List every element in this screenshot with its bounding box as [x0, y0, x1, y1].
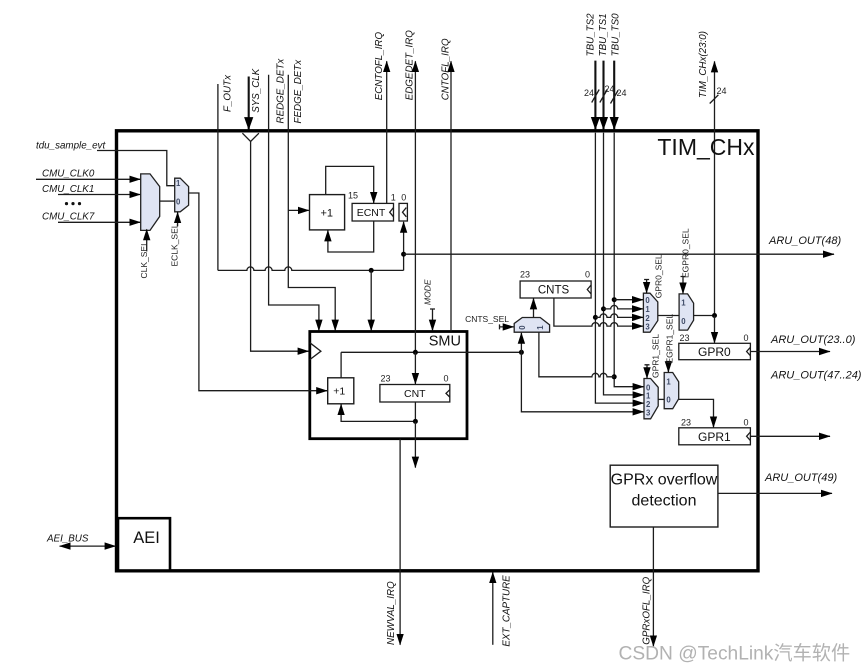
wire AEI_BUS bidirectional — [60, 545, 116, 547]
wire arrow into CNT — [414, 352, 416, 384]
svg-text:REDGE_DETx: REDGE_DETx — [276, 58, 287, 124]
wire tap down to GPR1 mux row3 — [521, 352, 643, 412]
node EDGEDET tap — [413, 350, 418, 355]
svg-text:1: 1 — [666, 377, 671, 386]
wire TBU_TS2 inside box down to GPR1 mux row2 — [595, 133, 643, 403]
selector arrow GPR0_SEL — [644, 280, 649, 293]
svg-text:ARU_OUT(23..0): ARU_OUT(23..0) — [770, 334, 856, 346]
wire GPR0 mux row1 with hop — [604, 305, 644, 308]
svg-text:CMU_CLK7: CMU_CLK7 — [42, 212, 95, 223]
wire SYS_CLK with arrow into box edge — [248, 77, 250, 130]
svg-text:EDGEDET_IRQ: EDGEDET_IRQ — [405, 30, 416, 101]
svg-text:0: 0 — [585, 270, 590, 280]
svg-text:24: 24 — [584, 88, 594, 98]
wire ARU_OUT(49) — [718, 492, 832, 494]
register CNTS — [520, 281, 591, 298]
bus slash TBU_TS1 — [600, 90, 608, 103]
selector arrow GPR1_SEL — [645, 365, 650, 378]
outer module box TIM_CHx — [117, 131, 759, 571]
svg-text:CNTOFL_IRQ: CNTOFL_IRQ — [441, 38, 452, 100]
wire CNTS_SEL mux out to CNTS — [533, 298, 535, 317]
svg-text:NEWVAL_IRQ: NEWVAL_IRQ — [386, 581, 397, 645]
svg-text:1: 1 — [176, 179, 181, 188]
svg-text:0: 0 — [744, 333, 749, 343]
svg-text:0: 0 — [681, 317, 686, 326]
svg-text:TIM_CHx: TIM_CHx — [657, 134, 755, 160]
+1 box inside SMU — [328, 378, 354, 404]
svg-text:FEDGE_DETx: FEDGE_DETx — [293, 59, 304, 124]
wire ECNTOFL_IRQ — [386, 61, 388, 203]
svg-text:TIM_CHx(23:0): TIM_CHx(23:0) — [698, 31, 709, 98]
register ECNT — [352, 203, 393, 221]
svg-text:0: 0 — [518, 325, 527, 330]
svg-text:24: 24 — [605, 84, 615, 94]
svg-text:ECNTOFL_IRQ: ECNTOFL_IRQ — [374, 32, 385, 101]
wire CNTS_SEL mux input1 leg from TBU_TS0 with hops — [539, 332, 614, 377]
wire EGPR1 mux out to GPR1 — [679, 399, 714, 427]
svg-text:CNT: CNT — [404, 388, 426, 400]
svg-text:AEI: AEI — [133, 529, 160, 547]
wire GPR1 output — [750, 435, 830, 437]
wire dangling output below SMU — [414, 421, 416, 467]
selector arrow EGPR1_SEL — [666, 362, 671, 373]
mux GPR0_SEL — [643, 293, 657, 332]
node TBU_TS0 lower tap — [612, 374, 617, 379]
wire SMU internal bus to CNTS_SEL mux — [341, 351, 521, 353]
svg-text:24: 24 — [717, 86, 727, 96]
ellipsis between CMU clocks — [65, 202, 68, 205]
wire TBU_TS1 inside box down to GPR1 mux row1 — [604, 133, 644, 395]
svg-text:23: 23 — [520, 270, 530, 280]
wire ARU_OUT(48) — [404, 253, 834, 255]
svg-text:24: 24 — [617, 88, 627, 98]
svg-text:CNTS_SEL: CNTS_SEL — [465, 314, 509, 324]
svg-text:0: 0 — [666, 396, 671, 405]
SMU input chevron — [310, 343, 321, 360]
mux ECLK_SEL — [175, 178, 189, 212]
svg-text:GPRx overflow: GPRx overflow — [611, 472, 718, 489]
wire GPR0 mux row0 — [614, 299, 643, 301]
node TBU_TS0 tap — [612, 297, 617, 302]
mux EGPR1_SEL — [664, 373, 679, 409]
svg-text:EGPR0_SEL: EGPR0_SEL — [681, 228, 691, 278]
bus slash TIM_CHx — [710, 95, 719, 104]
svg-text:ARU_OUT(49): ARU_OUT(49) — [764, 472, 837, 484]
wire FEDGE branch into +1 — [288, 209, 309, 211]
wire REDGE_DETx into SMU — [269, 75, 319, 331]
wire ECNT to +1 loop bottom — [328, 221, 374, 252]
svg-text:tdu_sample_evt: tdu_sample_evt — [36, 141, 106, 152]
svg-text:CLK_SEL: CLK_SEL — [139, 241, 149, 279]
wire up into ECNT bit0 — [403, 222, 405, 271]
svg-text:ARU_OUT(47..24): ARU_OUT(47..24) — [770, 370, 862, 382]
wire GPRxOFL_IRQ — [652, 527, 654, 646]
svg-text:F_OUTx: F_OUTx — [223, 74, 234, 112]
selector arrow ECLK_SEL — [177, 212, 179, 226]
wire branch down into SMU — [370, 270, 372, 330]
bus slash TBU_TS0 — [611, 91, 619, 104]
svg-text:3: 3 — [645, 323, 650, 332]
svg-text:GPR1: GPR1 — [698, 430, 731, 444]
AEI sub-box — [118, 518, 170, 570]
svg-text:23: 23 — [680, 333, 690, 343]
svg-text:0: 0 — [645, 296, 650, 305]
register CNT — [380, 385, 450, 403]
svg-text:23: 23 — [681, 417, 691, 427]
svg-text:GPR0: GPR0 — [698, 345, 731, 359]
svg-text:0: 0 — [744, 417, 749, 427]
register ECNT bit0 — [399, 203, 407, 221]
wire TIM_CHx(23:0) output up — [714, 61, 716, 315]
svg-text:detection: detection — [632, 493, 697, 510]
wire NEWVAL_IRQ — [399, 439, 401, 645]
svg-text:TBU_TS0: TBU_TS0 — [611, 13, 622, 57]
wire CNT bottom feedback to +1 — [341, 402, 415, 421]
wire F_OUTx vertical into box — [217, 84, 219, 270]
node GPR0 feed junction — [712, 313, 717, 318]
register GPR0 — [679, 343, 751, 359]
wire CNTOFL_IRQ — [450, 61, 452, 331]
svg-text:2: 2 — [645, 314, 650, 323]
selector arrow EGPR0_SEL — [681, 277, 686, 294]
mux CNTS_SEL — [514, 318, 549, 333]
wire CNTS to GPR0 mux row3 with hops — [554, 298, 643, 326]
node TBU_TS1 tap — [601, 306, 606, 311]
wire down into GPR0 — [714, 316, 716, 343]
svg-text:CMU_CLK0: CMU_CLK0 — [42, 169, 95, 180]
svg-text:1: 1 — [681, 299, 686, 308]
svg-text:TBU_TS2: TBU_TS2 — [586, 13, 597, 57]
svg-text:EXT_CAPTURE: EXT_CAPTURE — [502, 575, 513, 647]
svg-text:GPR0_SEL: GPR0_SEL — [654, 254, 664, 298]
node SMU bus tap — [519, 350, 524, 355]
wire tap up into CNTS_SEL mux in0 — [520, 333, 522, 353]
svg-text:3: 3 — [646, 409, 651, 418]
svg-text:0: 0 — [176, 198, 181, 207]
svg-text:EGPR1_SEL: EGPR1_SEL — [665, 314, 675, 364]
svg-text:CNTS: CNTS — [538, 285, 570, 297]
svg-text:GPRxOFL_IRQ: GPRxOFL_IRQ — [641, 576, 652, 644]
wire EDGEDET_IRQ — [414, 61, 416, 352]
svg-text:ARU_OUT(48): ARU_OUT(48) — [768, 235, 841, 247]
wire TBU_TS2 top stub — [594, 61, 596, 130]
wire EGPR0 mux out to GPR0 feed — [694, 315, 715, 317]
wire GPR1 mux out to EGPR1 mux — [658, 398, 664, 400]
svg-text:MODE: MODE — [423, 279, 433, 305]
wire EXT_CAPTURE — [492, 572, 494, 645]
svg-text:CSDN @TechLink汽车软件: CSDN @TechLink汽车软件 — [619, 643, 851, 665]
svg-text:23: 23 — [381, 374, 391, 384]
mux GPR1_SEL — [644, 379, 658, 419]
svg-text:GPR1_SEL: GPR1_SEL — [651, 334, 661, 378]
bus slash TBU_TS2 — [592, 90, 600, 103]
+1 box of ECNT — [310, 195, 345, 230]
svg-text:0: 0 — [401, 193, 406, 203]
wire ARU_OUT(23..0) — [750, 351, 830, 353]
wire GPR0 mux out to EGPR0 mux — [658, 315, 679, 317]
svg-text:15: 15 — [348, 191, 358, 201]
svg-text:+1: +1 — [321, 208, 334, 220]
wire CMU_CLK0 — [36, 178, 140, 180]
svg-text:1: 1 — [391, 193, 396, 203]
svg-text:SMU: SMU — [429, 334, 461, 350]
wire GPR0 mux row2 with hops — [595, 314, 643, 318]
selector arrow MODE — [430, 309, 435, 331]
svg-text:1: 1 — [536, 325, 545, 330]
wire +1 to ECNT loop top — [326, 166, 374, 203]
wire from funnel down to SMU chevron input — [251, 142, 309, 352]
svg-text:TBU_TS1: TBU_TS1 — [598, 13, 609, 56]
wire tdu_sample_evt into ECLK mux input 1 — [97, 151, 175, 186]
node TBU_TS2 tap — [593, 315, 598, 320]
svg-text:CMU_CLK1: CMU_CLK1 — [42, 184, 94, 195]
node CNT bottom junction — [413, 419, 418, 424]
svg-text:ECNT: ECNT — [357, 207, 386, 219]
wire TBU_TS0 inside box down to GPR1 mux row0 — [614, 133, 643, 387]
SMU sub-box — [310, 332, 467, 439]
selector arrow CLK_SEL — [146, 229, 148, 251]
svg-text:0: 0 — [444, 374, 449, 384]
svg-text:SYS_CLK: SYS_CLK — [251, 68, 262, 113]
svg-text:+1: +1 — [333, 386, 345, 398]
selector arrow CNTS_SEL — [500, 324, 514, 329]
mux CLK_SEL — [141, 174, 160, 231]
wire TBU_TS1 top stub — [602, 61, 604, 130]
wire TBU_TS0 top stub — [613, 61, 615, 130]
input funnel V below SYS_CLK — [242, 133, 259, 141]
mux EGPR0_SEL — [679, 294, 694, 330]
GPRx overflow detection box — [610, 465, 718, 527]
wire down to +1 top — [340, 352, 342, 378]
wire CMU_CLK1 — [58, 194, 140, 196]
wire CMU_CLK7 — [58, 221, 140, 223]
wire CLK mux out to ECLK mux in0 — [160, 200, 175, 202]
wire F_OUTx horizontal with hops over SYS/REDGE/FEDGE lines — [218, 267, 404, 271]
svg-text:ECLK_SEL: ECLK_SEL — [170, 223, 180, 266]
wire FEDGE_DETx into SMU — [288, 75, 335, 331]
svg-text:AEI_BUS: AEI_BUS — [46, 534, 89, 545]
node ARU_OUT(48) junction — [401, 252, 406, 257]
wire ECLK mux out down to SMU +1 — [189, 193, 328, 391]
register GPR1 — [679, 428, 751, 445]
node F_OUT branch junction — [369, 268, 374, 273]
svg-text:1: 1 — [645, 305, 650, 314]
